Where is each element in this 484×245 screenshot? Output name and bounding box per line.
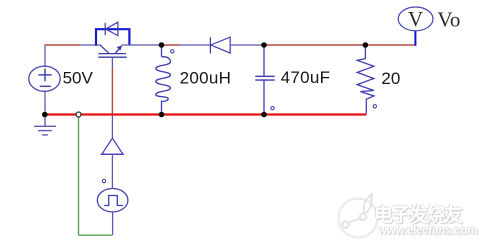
gating source square-wave glyph [104, 196, 123, 206]
svg-text:470uF: 470uF [281, 68, 331, 87]
gating source circle [97, 189, 128, 212]
wire: controller to gating source (blue) [111, 154, 113, 188]
resistor R1 [357, 45, 374, 114]
svg-text:50V: 50V [63, 68, 94, 87]
watermark logo circle [339, 194, 378, 238]
inductor L1 top lead [161, 45, 163, 57]
wire: source bottom lead (blue) [44, 91, 46, 114]
dc source V1 50V [29, 66, 60, 91]
junction dot: capacitor top [261, 42, 267, 48]
wire: into IGBT collector (blue) [79, 44, 101, 46]
IGBT Q1 emitter arrow head [117, 45, 123, 50]
junction dot: inductor top [159, 42, 165, 48]
bottom rail (red, thick) [44, 113, 366, 115]
resistor marker o [373, 105, 376, 108]
wire: green feedback down [78, 117, 80, 235]
junction dot: inductor bottom [159, 112, 165, 118]
wire: gating source bottom lead (blue) [112, 212, 114, 235]
inductor polarity marker o [171, 50, 174, 53]
IGBT Q1 free-wheel diode loop [96, 29, 129, 45]
IGBT Q1 anti-parallel diode symbol [105, 22, 118, 35]
gate stub (blue) [111, 57, 113, 67]
wire: green feedback bottom horizontal [79, 234, 112, 236]
wire: IGBT emitter to inductor junction (blue) [122, 44, 162, 46]
on-off controller triangle [101, 138, 125, 154]
svg-text:200uH: 200uH [180, 68, 232, 87]
junction dot: resistor top [363, 42, 369, 48]
svg-text:V: V [408, 7, 423, 31]
svg-text:Vo: Vo [437, 8, 460, 32]
capacitor C1 plates [255, 76, 274, 80]
wire: source top lead (blue) [44, 45, 46, 67]
junction dot: source-ground [42, 112, 48, 118]
wire: below rail to controller (blue) [111, 116, 113, 138]
IGBT Q1 body [98, 45, 126, 57]
wire: capacitor junction to voltmeter tap (red) [264, 44, 415, 46]
svg-text:20: 20 [381, 69, 400, 88]
diode D1 (freewheeling, pointing left) [210, 37, 230, 54]
voltmeter lead (bright blue) [414, 31, 416, 46]
voltmeter V ellipse [398, 7, 433, 31]
inductor L1 coil [156, 57, 171, 102]
capacitor C1 bottom lead [263, 80, 265, 114]
junction dot: capacitor bottom [261, 112, 267, 118]
capacitor polarity marker o [271, 107, 274, 110]
inductor L1 bottom lead [161, 101, 163, 115]
wire: source top to IGBT, red segment [45, 44, 80, 46]
gating source marker o [102, 179, 105, 182]
gate wire (red) [111, 67, 113, 114]
wire: blue segment to diode anode-bar [180, 44, 210, 46]
wire: red segment right of inductor junction [162, 44, 181, 46]
wire: diode to capacitor junction (blue) [230, 44, 264, 46]
capacitor C1 top lead [263, 45, 265, 76]
ground [34, 115, 56, 135]
hollow node: green tap [76, 112, 81, 117]
